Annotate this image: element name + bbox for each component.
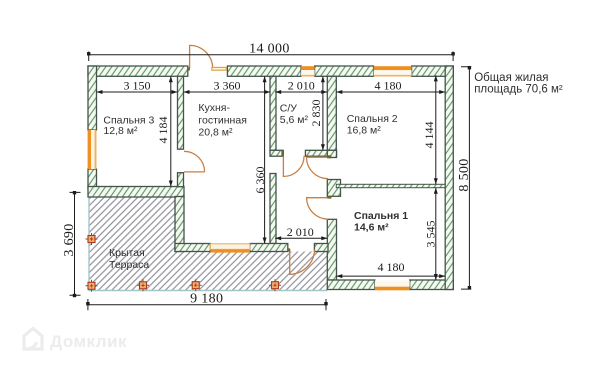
- svg-text:3 690: 3 690: [62, 223, 77, 256]
- svg-text:Спальня 2: Спальня 2: [347, 113, 398, 125]
- svg-text:16,8 м²: 16,8 м²: [347, 125, 382, 137]
- svg-text:6 360: 6 360: [253, 167, 267, 194]
- svg-text:2 010: 2 010: [288, 79, 315, 93]
- svg-text:3 360: 3 360: [214, 79, 241, 93]
- svg-text:Кухня-: Кухня-: [198, 102, 230, 114]
- svg-text:Терраса: Терраса: [109, 259, 149, 271]
- svg-text:4 144: 4 144: [422, 122, 436, 149]
- svg-text:5,6 м²: 5,6 м²: [280, 114, 309, 126]
- svg-text:3 545: 3 545: [424, 221, 438, 248]
- svg-text:14 000: 14 000: [249, 41, 290, 56]
- svg-text:4 184: 4 184: [156, 117, 170, 144]
- svg-text:Домклик: Домклик: [50, 332, 127, 351]
- svg-text:8 500: 8 500: [457, 158, 472, 191]
- svg-text:4 180: 4 180: [375, 79, 402, 93]
- svg-text:3 150: 3 150: [124, 79, 151, 93]
- svg-text:Крытая: Крытая: [109, 247, 145, 259]
- svg-text:9 180: 9 180: [190, 291, 223, 306]
- svg-text:Спальня 1: Спальня 1: [354, 210, 408, 222]
- svg-text:14,6 м²: 14,6 м²: [354, 221, 389, 233]
- svg-text:С/У: С/У: [280, 103, 298, 115]
- svg-text:2 830: 2 830: [309, 100, 323, 127]
- svg-text:12,8 м²: 12,8 м²: [103, 125, 138, 137]
- svg-text:20,8 м²: 20,8 м²: [198, 127, 233, 139]
- svg-text:4 180: 4 180: [378, 260, 405, 274]
- svg-text:2 010: 2 010: [287, 225, 314, 239]
- svg-text:площадь 70,6 м²: площадь 70,6 м²: [474, 84, 563, 96]
- svg-text:гостинная: гостинная: [198, 115, 247, 127]
- svg-text:Общая жилая: Общая жилая: [474, 72, 548, 84]
